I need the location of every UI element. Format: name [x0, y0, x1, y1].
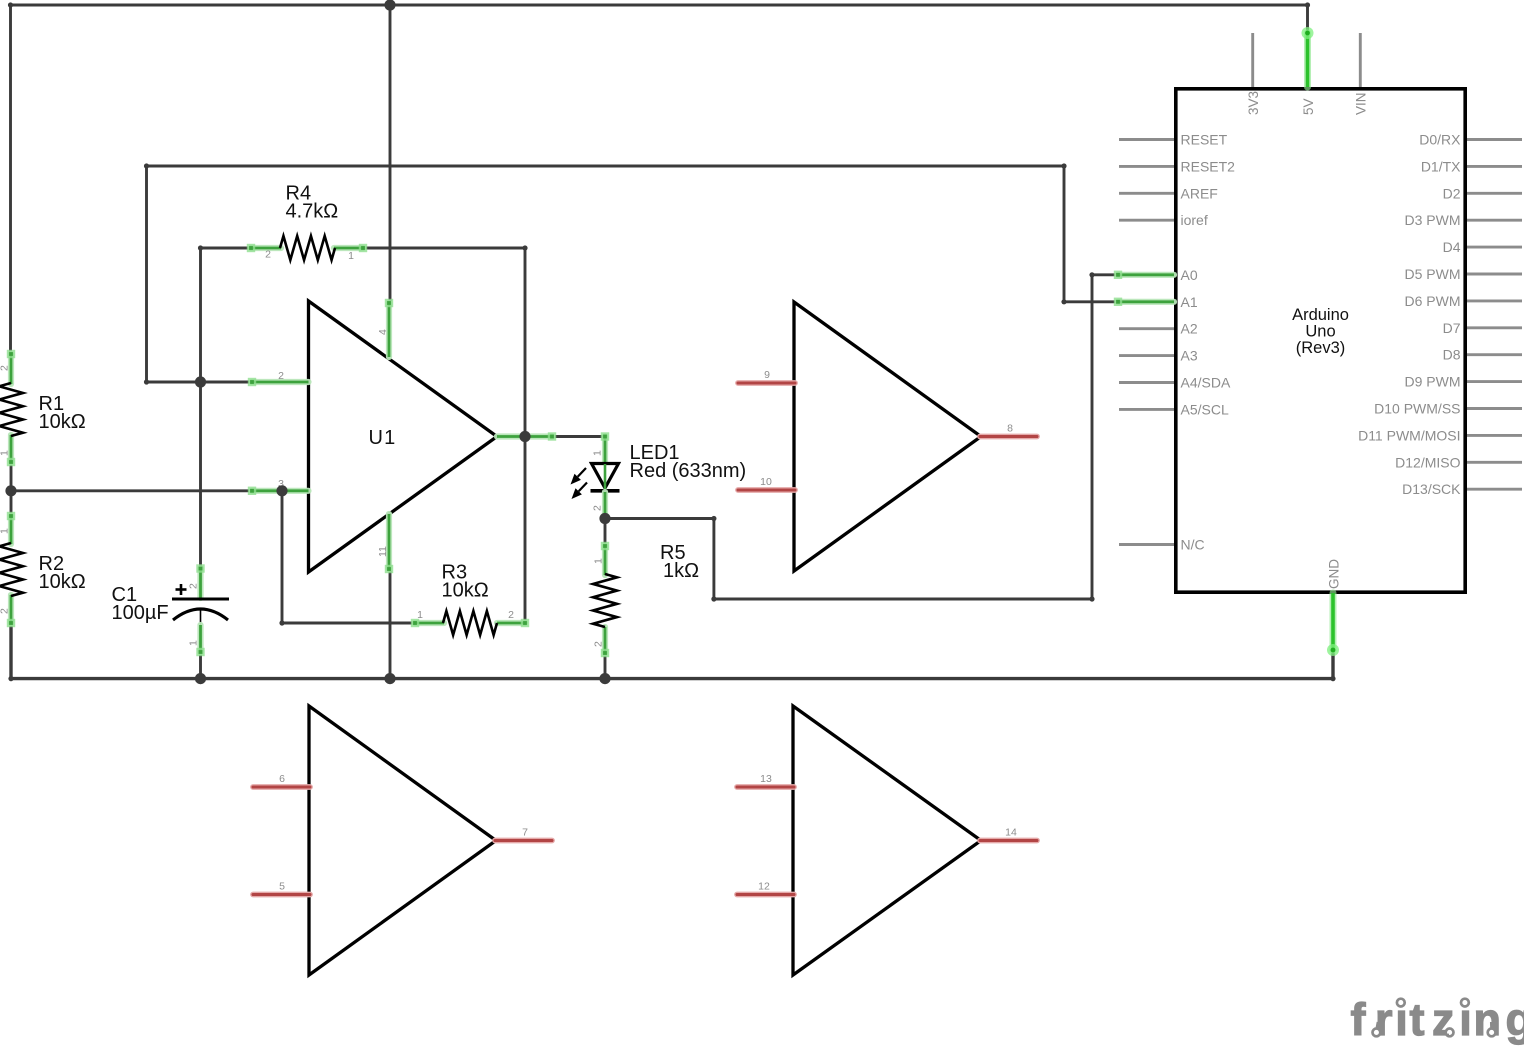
- pin RESET2: [1119, 165, 1174, 168]
- pin 3V3: [1251, 33, 1254, 87]
- wire R5 pin2 to GND rail: [604, 653, 607, 679]
- pin 7 output: [495, 838, 552, 844]
- pin 2 cathode: [602, 492, 608, 519]
- pin 1: [197, 625, 203, 652]
- svg-text:10kΩ: 10kΩ: [442, 580, 489, 602]
- junction GND rail / R5: [599, 673, 610, 684]
- op-amp U2: [738, 302, 1037, 571]
- svg-text:2: 2: [593, 641, 605, 647]
- zigzag body: [280, 236, 335, 260]
- wire U1 output to LED1 anode: [552, 434, 608, 439]
- svg-text:D6 PWM: D6 PWM: [1405, 293, 1461, 309]
- svg-text:U1: U1: [369, 427, 397, 449]
- svg-text:D10 PWM/SS: D10 PWM/SS: [1374, 401, 1460, 417]
- pin VIN: [1359, 33, 1362, 87]
- pin 1: [334, 245, 363, 251]
- pin 2: [251, 245, 281, 251]
- wire node LED/R5 to Arduino A0: [605, 272, 1119, 601]
- svg-text:A3: A3: [1181, 348, 1198, 364]
- svg-text:D5 PWM: D5 PWM: [1405, 266, 1461, 282]
- center lead: [604, 464, 607, 490]
- junction GND rail / C1: [195, 673, 206, 684]
- svg-text:ioref: ioref: [1181, 212, 1208, 228]
- pin D7: [1467, 326, 1522, 329]
- svg-text:Arduino: Arduino: [1292, 306, 1349, 324]
- svg-text:A1: A1: [1181, 294, 1198, 310]
- svg-text:13: 13: [760, 773, 772, 785]
- pin 11: [386, 514, 392, 569]
- wire GND rail: R2 pin2 to bottom rail to Arduino GND: [8, 623, 1335, 681]
- junction R1/R2/U1 pin3 wire: [5, 485, 16, 496]
- svg-text:8: 8: [1007, 423, 1013, 435]
- body: [1176, 89, 1465, 592]
- plus sign: [176, 588, 187, 591]
- body: [793, 706, 981, 975]
- svg-text:2: 2: [265, 249, 271, 261]
- svg-text:g: g: [1506, 994, 1524, 1045]
- svg-text:4: 4: [377, 329, 389, 335]
- pin 2: [8, 595, 14, 623]
- wire node A1: from U1 pin2 branch to Arduino A1: [144, 163, 1119, 304]
- svg-text:D7: D7: [1443, 320, 1461, 336]
- resistor R1: [0, 350, 86, 466]
- pin 1: [602, 546, 608, 575]
- svg-text:Red (633nm): Red (633nm): [630, 460, 747, 482]
- pin 5: [253, 892, 310, 898]
- pin A3: [1119, 354, 1174, 357]
- pin ioref: [1119, 219, 1174, 222]
- svg-text:10kΩ: 10kΩ: [39, 571, 86, 593]
- curved plate: [173, 609, 228, 620]
- junction U1 pin3 / R3 branch: [276, 485, 287, 496]
- svg-text:1: 1: [592, 450, 604, 456]
- zigzag body: [0, 543, 23, 596]
- pin 1: [415, 620, 444, 626]
- junction LED cathode / R5 / A0 wire: [599, 513, 610, 524]
- svg-text:5: 5: [279, 881, 285, 893]
- top plate: [172, 597, 229, 600]
- output pin 1: [497, 433, 552, 439]
- zigzag body: [443, 611, 497, 635]
- pin 2: [602, 627, 608, 653]
- resistor R2: [0, 512, 86, 627]
- junction 5V rail / U1 pin4 wire: [384, 0, 395, 11]
- svg-text:D3 PWM: D3 PWM: [1405, 212, 1461, 228]
- svg-text:2: 2: [0, 365, 11, 371]
- wire R4 pin1 to U1 output node: [363, 245, 528, 623]
- pin D13/SCK: [1467, 488, 1522, 491]
- pin 8 output: [980, 434, 1037, 440]
- pin 2: [197, 569, 203, 599]
- pin D1/TX: [1467, 165, 1522, 168]
- pin 1: [8, 516, 14, 544]
- wire from 5V rail down to U1 pin 4: [389, 5, 392, 302]
- svg-text:N/C: N/C: [1181, 537, 1205, 553]
- pin A1: [1118, 299, 1174, 305]
- svg-text:6: 6: [279, 773, 285, 785]
- op-amp U4: [737, 706, 1037, 975]
- svg-text:AREF: AREF: [1181, 185, 1218, 201]
- svg-text:9: 9: [764, 369, 770, 381]
- zigzag body: [0, 383, 23, 436]
- svg-text:12: 12: [758, 881, 770, 893]
- junction GND rail / U1 pin11: [384, 673, 395, 684]
- wire LED1 cathode node to R5 pin1: [604, 519, 607, 548]
- svg-text:4.7kΩ: 4.7kΩ: [286, 201, 339, 223]
- resistor R4: [247, 183, 367, 263]
- svg-text:1: 1: [0, 528, 11, 534]
- wire R1 pin1 to R2 pin1: [10, 462, 13, 517]
- svg-text:1kΩ: 1kΩ: [663, 560, 699, 582]
- emission arrow: [578, 468, 586, 477]
- pin 6: [253, 784, 310, 790]
- pin D6 PWM: [1467, 299, 1522, 302]
- IC Arduino Uno (Rev3): [1114, 27, 1522, 656]
- emission arrow: [579, 483, 587, 492]
- svg-text:2: 2: [592, 505, 604, 511]
- pin 9: [738, 380, 795, 386]
- svg-text:D4: D4: [1443, 239, 1461, 255]
- svg-text:A0: A0: [1181, 267, 1198, 283]
- pin D2: [1467, 192, 1522, 195]
- op-amp U1: [248, 299, 556, 573]
- LED LED1: [571, 432, 747, 522]
- svg-text:5V: 5V: [1301, 98, 1316, 115]
- pin N/C: [1119, 543, 1174, 546]
- pin 5V: [1304, 33, 1311, 87]
- svg-text:7: 7: [522, 827, 528, 839]
- fritzing logo: [1351, 994, 1524, 1045]
- svg-text:n: n: [1474, 994, 1502, 1045]
- pin A2: [1119, 327, 1174, 330]
- diode triangle: [592, 464, 619, 489]
- pin 10: [738, 487, 795, 493]
- pin 2: [497, 620, 525, 626]
- body: [309, 301, 498, 572]
- pin D12/MISO: [1467, 461, 1522, 464]
- svg-text:t: t: [1410, 994, 1425, 1045]
- pin 13: [737, 784, 794, 790]
- svg-text:(Rev3): (Rev3): [1296, 339, 1346, 357]
- wire U1 pin11 to GND rail: [389, 568, 392, 679]
- svg-text:D2: D2: [1443, 185, 1461, 201]
- op-amp U3: [253, 706, 552, 975]
- cathode bar: [591, 489, 620, 493]
- junction U1 output node: [519, 431, 530, 442]
- junction U1 pin2 node: [195, 376, 206, 387]
- body: [309, 706, 496, 975]
- pin D4: [1467, 246, 1522, 249]
- svg-text:Uno: Uno: [1305, 323, 1335, 341]
- svg-text:100µF: 100µF: [112, 602, 169, 624]
- pin 2: [8, 354, 14, 384]
- pin D3 PWM: [1467, 219, 1522, 222]
- svg-text:A5/SCL: A5/SCL: [1181, 401, 1229, 417]
- svg-text:D0/RX: D0/RX: [1419, 132, 1461, 148]
- pin 2: [252, 379, 309, 385]
- svg-text:1: 1: [593, 558, 605, 564]
- pin A5/SCL: [1119, 408, 1174, 411]
- svg-text:D11 PWM/MOSI: D11 PWM/MOSI: [1358, 427, 1460, 443]
- zigzag body: [593, 574, 617, 627]
- svg-text:1: 1: [348, 250, 354, 262]
- svg-text:2: 2: [508, 609, 514, 621]
- pin D0/RX: [1467, 138, 1522, 141]
- svg-text:D1/TX: D1/TX: [1421, 158, 1461, 174]
- lead: [200, 610, 202, 627]
- pin D9 PWM: [1467, 380, 1522, 383]
- svg-text:1: 1: [417, 609, 423, 621]
- svg-text:RESET: RESET: [1181, 132, 1228, 148]
- svg-text:RESET2: RESET2: [1181, 158, 1236, 174]
- pin 3: [252, 488, 309, 494]
- pin GND: [1330, 593, 1337, 650]
- svg-text:2: 2: [188, 583, 200, 589]
- pin 12: [737, 892, 794, 898]
- body: [794, 302, 981, 571]
- pin 14 output: [980, 838, 1037, 844]
- pin A4/SDA: [1119, 381, 1174, 384]
- pin RESET: [1119, 138, 1174, 141]
- svg-text:3V3: 3V3: [1246, 91, 1261, 115]
- svg-text:A2: A2: [1181, 321, 1198, 337]
- svg-text:2: 2: [0, 608, 11, 614]
- svg-text:1: 1: [188, 640, 200, 646]
- svg-text:11: 11: [377, 546, 389, 557]
- svg-text:1: 1: [0, 450, 11, 456]
- wire U1 pin3 node down to R3 pin1: [279, 491, 416, 626]
- pin D8: [1467, 353, 1522, 356]
- svg-text:D12/MISO: D12/MISO: [1395, 454, 1460, 470]
- capacitor C1: [112, 564, 230, 656]
- wire 5V rail: left vertical, top rail, drop to Arduino 5V: [8, 2, 1310, 355]
- pin 1: [8, 435, 14, 462]
- svg-text:D8: D8: [1443, 347, 1461, 363]
- svg-text:10kΩ: 10kΩ: [39, 411, 86, 433]
- svg-text:14: 14: [1005, 827, 1017, 839]
- svg-text:A4/SDA: A4/SDA: [1181, 375, 1231, 391]
- pin 1 anode: [602, 437, 608, 464]
- wire from node at y166 down to U1 pin 2: [144, 166, 254, 385]
- wire R4 pin2 to U1 pin2 node, down to C1: [198, 245, 252, 569]
- svg-text:2: 2: [278, 370, 284, 382]
- svg-text:f: f: [1351, 994, 1367, 1045]
- pin AREF: [1119, 192, 1174, 195]
- resistor R5: [593, 542, 700, 657]
- svg-text:10: 10: [760, 476, 772, 488]
- wire C1 pin1 to GND rail: [199, 652, 202, 679]
- pin D5 PWM: [1467, 273, 1522, 276]
- svg-text:D13/SCK: D13/SCK: [1402, 481, 1461, 497]
- svg-text:VIN: VIN: [1354, 92, 1369, 115]
- pin D11 PWM/MOSI: [1467, 434, 1522, 437]
- wire R1/R2 node to U1 pin 3: [11, 489, 254, 492]
- pin A0: [1118, 272, 1174, 278]
- resistor R3: [411, 562, 529, 636]
- svg-text:D9 PWM: D9 PWM: [1405, 374, 1461, 390]
- pin 4: [386, 303, 392, 357]
- pin D10 PWM/SS: [1467, 407, 1522, 410]
- svg-text:GND: GND: [1326, 559, 1341, 589]
